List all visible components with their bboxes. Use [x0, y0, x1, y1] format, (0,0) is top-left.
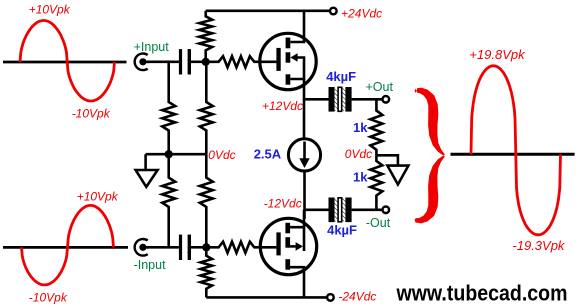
svg-text:-Out: -Out — [366, 216, 391, 230]
svg-text:-10Vpk: -10Vpk — [72, 106, 111, 120]
svg-text:+Input: +Input — [134, 40, 170, 54]
svg-text:0Vdc: 0Vdc — [208, 148, 235, 162]
svg-text:+10Vpk: +10Vpk — [29, 3, 71, 17]
svg-text:1k: 1k — [353, 170, 368, 185]
svg-text:-Input: -Input — [134, 258, 166, 272]
svg-text:1k: 1k — [353, 120, 368, 135]
svg-text:2.5A: 2.5A — [254, 147, 282, 162]
svg-text:+19.8Vpk: +19.8Vpk — [469, 47, 526, 62]
svg-text:www.tubecad.com: www.tubecad.com — [396, 280, 568, 305]
svg-text:0Vdc: 0Vdc — [345, 147, 372, 161]
svg-text:-10Vpk: -10Vpk — [29, 290, 68, 304]
svg-text:-24Vdc: -24Vdc — [338, 290, 376, 304]
svg-text:+Out: +Out — [366, 80, 394, 94]
svg-text:+24Vdc: +24Vdc — [341, 7, 382, 21]
svg-text:4kµF: 4kµF — [326, 69, 356, 84]
svg-text:-12Vdc: -12Vdc — [264, 196, 302, 210]
svg-text:+10Vpk: +10Vpk — [77, 190, 119, 204]
svg-text:4kµF: 4kµF — [327, 223, 357, 238]
svg-text:-19.3Vpk: -19.3Vpk — [512, 238, 566, 253]
svg-text:+12Vdc: +12Vdc — [262, 99, 303, 113]
